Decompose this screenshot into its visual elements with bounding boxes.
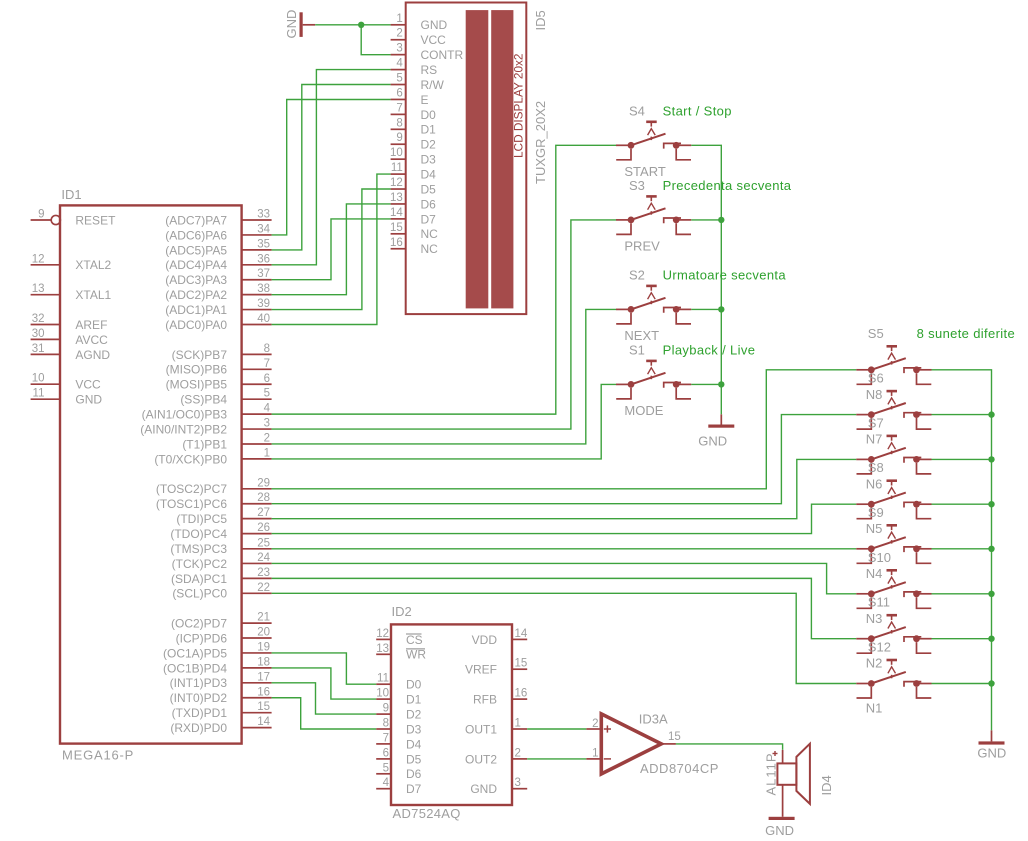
svg-text:23: 23 — [257, 567, 270, 579]
svg-text:1: 1 — [396, 13, 402, 25]
svg-text:(ADC1)PA1: (ADC1)PA1 — [165, 303, 227, 317]
svg-text:N2: N2 — [866, 656, 883, 671]
op-amp minus input marker — [604, 758, 611, 760]
speaker plus polarity mark — [773, 753, 778, 755]
svg-text:40: 40 — [257, 313, 270, 325]
wire DAC OUT1 to op-amp noninverting — [527, 728, 586, 730]
junction column row 6 — [988, 591, 994, 597]
svg-text:12: 12 — [376, 628, 389, 640]
svg-text:6: 6 — [383, 747, 389, 759]
svg-text:AVCC: AVCC — [75, 333, 108, 347]
svg-text:14: 14 — [257, 716, 270, 728]
svg-text:(TDO)PC4: (TDO)PC4 — [170, 527, 227, 541]
wire PC3 to switch S9 — [272, 548, 857, 550]
wire GND net to LCD pin1 — [315, 24, 390, 26]
wire switch row 7 to column — [932, 638, 992, 640]
speaker ID4 body box — [777, 763, 796, 784]
svg-text:(AIN1/OC0)PB3: (AIN1/OC0)PB3 — [142, 408, 228, 422]
wire S3 right to column — [691, 219, 721, 221]
svg-text:R/W: R/W — [421, 78, 445, 92]
svg-text:S8: S8 — [868, 460, 884, 475]
svg-text:(ADC5)PA5: (ADC5)PA5 — [165, 243, 227, 257]
svg-text:(SCK)PB7: (SCK)PB7 — [172, 348, 228, 362]
pin 16 (INT0)PD2 of ID1 — [242, 697, 272, 699]
wire PC2 to switch S10 — [272, 563, 857, 593]
svg-text:(MISO)PB6: (MISO)PB6 — [166, 363, 228, 377]
wire PB3 to switch S4 — [272, 145, 616, 414]
svg-text:15: 15 — [390, 222, 403, 234]
pin 14 D7 of ID5 — [391, 218, 406, 220]
svg-text:(MOSI)PB5: (MOSI)PB5 — [166, 378, 228, 392]
svg-text:RFB: RFB — [473, 693, 497, 707]
IC ID2 AD7524 body — [391, 624, 512, 805]
pin 1 OUT1 of ID2 — [512, 728, 527, 730]
svg-text:TUXGR_20X2: TUXGR_20X2 — [533, 101, 548, 184]
pin 3 (AIN0/INT2)PB2 of ID1 — [242, 428, 272, 430]
pin 11 GND of ID1 — [31, 398, 60, 400]
switch S11 symbol — [856, 615, 931, 653]
junction S3 column — [718, 217, 724, 223]
svg-text:D6: D6 — [421, 197, 437, 211]
wire PD4 to DAC D1 — [272, 668, 377, 699]
svg-text:(T1)PB1: (T1)PB1 — [182, 437, 227, 451]
svg-text:(ADC7)PA7: (ADC7)PA7 — [165, 213, 227, 227]
svg-text:Precedenta secventa: Precedenta secventa — [663, 178, 792, 193]
svg-text:AREF: AREF — [75, 318, 107, 332]
pin 6 E of ID5 — [391, 98, 406, 100]
svg-text:8 sunete diferite: 8 sunete diferite — [917, 326, 1015, 341]
svg-text:N1: N1 — [866, 701, 883, 716]
pin 12 CS of ID2 — [376, 638, 391, 640]
pin 10 VCC of ID1 — [31, 383, 60, 385]
wire D7 PA3 to LCD pin14 — [272, 219, 391, 280]
svg-text:(ADC2)PA2: (ADC2)PA2 — [165, 288, 227, 302]
svg-text:(ADC0)PA0: (ADC0)PA0 — [165, 318, 227, 332]
svg-text:D1: D1 — [406, 693, 422, 707]
pin 1 op-amp inverting input — [586, 758, 601, 760]
svg-text:30: 30 — [32, 328, 45, 340]
svg-text:NC: NC — [421, 242, 439, 256]
svg-text:MEGA16-P: MEGA16-P — [62, 747, 134, 762]
svg-text:S11: S11 — [868, 595, 890, 610]
svg-text:1: 1 — [264, 447, 270, 459]
svg-text:S6: S6 — [868, 371, 884, 386]
pin 26 (TDO)PC4 of ID1 — [242, 533, 272, 535]
svg-text:XTAL2: XTAL2 — [75, 258, 111, 272]
wire PD3 to DAC D2 — [272, 683, 377, 714]
svg-text:7: 7 — [383, 732, 389, 744]
svg-text:START: START — [624, 164, 665, 179]
svg-text:21: 21 — [257, 612, 270, 624]
svg-text:CS: CS — [406, 633, 423, 647]
svg-text:7: 7 — [396, 102, 402, 114]
svg-text:18: 18 — [257, 656, 270, 668]
svg-text:N3: N3 — [866, 611, 883, 626]
svg-text:D0: D0 — [421, 108, 437, 122]
svg-text:31: 31 — [32, 343, 45, 355]
svg-text:(ADC3)PA3: (ADC3)PA3 — [165, 273, 227, 287]
svg-text:OUT2: OUT2 — [465, 752, 497, 766]
svg-text:28: 28 — [257, 492, 270, 504]
switch S2 symbol — [616, 286, 691, 324]
svg-text:13: 13 — [376, 643, 389, 655]
pin 37 (ADC3)PA3 of ID1 — [242, 279, 272, 281]
speaker ID4 horn — [796, 744, 810, 804]
junction column row 3 — [988, 456, 994, 462]
pin 35 (ADC5)PA5 of ID1 — [242, 249, 272, 251]
svg-text:GND: GND — [470, 782, 497, 796]
svg-text:Playback / Live: Playback / Live — [663, 342, 756, 357]
svg-text:(SDA)PC1: (SDA)PC1 — [171, 572, 227, 586]
pin 7 (MISO)PB6 of ID1 — [242, 368, 272, 370]
svg-text:8: 8 — [396, 117, 402, 129]
pin 16 NC of ID5 — [391, 248, 406, 250]
pin 2 VCC of ID5 — [391, 39, 406, 41]
svg-text:(AIN0/INT2)PB2: (AIN0/INT2)PB2 — [140, 422, 227, 436]
svg-text:GND: GND — [765, 823, 794, 838]
pin 15 VREF of ID2 — [512, 668, 527, 670]
svg-text:12: 12 — [32, 253, 45, 265]
svg-text:D4: D4 — [406, 737, 422, 751]
pin 9 D2 of ID5 — [391, 143, 406, 145]
pin 4 D7 of ID2 — [376, 788, 391, 790]
svg-text:3: 3 — [396, 43, 402, 55]
svg-text:OUT1: OUT1 — [465, 722, 497, 736]
svg-text:24: 24 — [257, 552, 270, 564]
pin 20 (ICP)PD6 of ID1 — [242, 637, 272, 639]
svg-text:S1: S1 — [629, 343, 645, 358]
pin 10 D1 of ID2 — [376, 698, 391, 700]
pin 12 XTAL2 of ID1 — [31, 264, 60, 266]
svg-text:11: 11 — [33, 388, 45, 400]
svg-text:39: 39 — [257, 298, 270, 310]
svg-text:WR: WR — [406, 648, 426, 662]
pin 32 AREF of ID1 — [31, 324, 60, 326]
svg-text:N6: N6 — [866, 476, 883, 491]
svg-text:S9: S9 — [868, 505, 884, 520]
svg-text:(OC2)PD7: (OC2)PD7 — [171, 617, 227, 631]
svg-text:2: 2 — [515, 747, 521, 759]
wire op-amp output to speaker — [676, 744, 783, 750]
pin 31 AGND of ID1 — [31, 353, 60, 355]
pin 33 (ADC7)PA7 of ID1 — [242, 219, 272, 221]
pin 29 (TOSC2)PC7 of ID1 — [242, 488, 272, 490]
svg-text:RESET: RESET — [75, 213, 116, 227]
pin 24 (TCK)PC2 of ID1 — [242, 562, 272, 564]
svg-text:D7: D7 — [406, 782, 422, 796]
wire GND net to LCD pin3 CONTR — [361, 25, 390, 55]
junction S1 column — [718, 381, 724, 387]
pin 12 D5 of ID5 — [391, 188, 406, 190]
svg-text:5: 5 — [383, 762, 389, 774]
LCD glass bar 2 — [491, 10, 513, 308]
svg-text:15: 15 — [668, 731, 681, 743]
svg-text:1: 1 — [592, 748, 598, 760]
svg-text:(OC1B)PD4: (OC1B)PD4 — [163, 661, 227, 675]
pin 36 (ADC4)PA4 of ID1 — [242, 264, 272, 266]
svg-text:38: 38 — [257, 283, 270, 295]
svg-text:ID5: ID5 — [533, 10, 548, 30]
svg-text:34: 34 — [257, 223, 270, 235]
svg-text:GND: GND — [977, 746, 1006, 761]
pin 14 (RXD)PD0 of ID1 — [242, 727, 272, 729]
svg-text:2: 2 — [592, 718, 598, 730]
wire S2 right to column — [691, 308, 721, 310]
svg-text:Start / Stop: Start / Stop — [663, 103, 732, 118]
IC ID1 MEGA16-P body — [60, 205, 242, 743]
svg-text:VREF: VREF — [465, 663, 497, 677]
svg-text:(INT0)PD2: (INT0)PD2 — [170, 691, 228, 705]
IC ID5 LCD display body — [406, 3, 527, 315]
switch S3 symbol — [616, 196, 691, 234]
pin 13 XTAL1 of ID1 — [31, 294, 60, 296]
svg-text:N7: N7 — [866, 432, 883, 447]
svg-text:8: 8 — [383, 718, 389, 730]
svg-text:D2: D2 — [406, 708, 422, 722]
wire PC7 to switch S5 — [272, 370, 857, 489]
pin 28 (TOSC1)PC6 of ID1 — [242, 503, 272, 505]
svg-text:ID1: ID1 — [61, 187, 81, 202]
wire switch row 5 to column — [932, 548, 992, 550]
pin 13 D6 of ID5 — [391, 203, 406, 205]
svg-text:S7: S7 — [868, 415, 884, 430]
svg-text:RS: RS — [421, 63, 438, 77]
switch S7 symbol — [856, 436, 931, 474]
svg-text:11: 11 — [391, 162, 403, 174]
pin 6 (MOSI)PB5 of ID1 — [242, 383, 272, 385]
wire switch row 6 to column — [932, 593, 992, 595]
pin 2 (T1)PB1 of ID1 — [242, 443, 272, 445]
ground symbol below mode buttons — [720, 414, 722, 424]
speaker top pin — [782, 750, 784, 764]
wire PB2 to switch S3 — [272, 220, 616, 429]
pin 5 R/W of ID5 — [391, 84, 406, 86]
svg-text:2: 2 — [396, 28, 402, 40]
wire PC5 to switch S7 — [272, 459, 857, 518]
svg-text:36: 36 — [257, 253, 270, 265]
pin 3 CONTR of ID5 — [391, 54, 406, 56]
junction column row 5 — [988, 546, 994, 552]
svg-text:(RXD)PD0: (RXD)PD0 — [170, 721, 227, 735]
svg-text:4: 4 — [264, 403, 271, 415]
pin 19 (OC1A)PD5 of ID1 — [242, 652, 272, 654]
switch S12 symbol — [856, 660, 931, 698]
wire S1 right to column — [691, 383, 721, 385]
pin 14 VDD of ID2 — [512, 638, 527, 640]
pin 27 (TDI)PC5 of ID1 — [242, 518, 272, 520]
junction column row 7 — [988, 636, 994, 642]
wire PC0 to switch S12 — [272, 593, 857, 683]
svg-text:E: E — [421, 93, 429, 107]
junction column row 4 — [988, 501, 994, 507]
svg-text:17: 17 — [257, 671, 270, 683]
svg-text:(ADC6)PA6: (ADC6)PA6 — [165, 228, 227, 242]
svg-text:22: 22 — [257, 582, 270, 594]
svg-text:D5: D5 — [406, 752, 422, 766]
svg-text:25: 25 — [257, 537, 270, 549]
svg-text:(INT1)PD3: (INT1)PD3 — [170, 676, 228, 690]
svg-text:AD7524AQ: AD7524AQ — [393, 806, 461, 821]
svg-text:S5: S5 — [868, 326, 884, 341]
junction GND net — [358, 22, 364, 28]
wire PB1 to switch S2 — [272, 309, 616, 444]
svg-text:CONTR: CONTR — [421, 48, 464, 62]
pin 9 D2 of ID2 — [376, 713, 391, 715]
svg-text:MODE: MODE — [624, 403, 663, 418]
pin 40 (ADC0)PA0 of ID1 — [242, 324, 272, 326]
pin 15 op-amp output — [661, 743, 676, 745]
svg-text:D7: D7 — [421, 212, 437, 226]
pin 21 (OC2)PD7 of ID1 — [242, 622, 272, 624]
svg-text:11: 11 — [377, 673, 389, 685]
svg-text:N4: N4 — [866, 566, 883, 581]
ground symbol below speaker — [769, 817, 795, 820]
svg-text:(SS)PB4: (SS)PB4 — [180, 393, 227, 407]
switch S8 symbol — [856, 481, 931, 519]
junction S2 column — [718, 306, 724, 312]
pin 38 (ADC2)PA2 of ID1 — [242, 294, 272, 296]
svg-text:D6: D6 — [406, 767, 422, 781]
svg-text:10: 10 — [376, 688, 389, 700]
wire E PA6 to LCD pin6 — [272, 100, 391, 235]
switch S9 symbol — [856, 525, 931, 563]
svg-text:14: 14 — [390, 207, 403, 219]
switch S1 symbol — [616, 361, 691, 399]
svg-text:4: 4 — [383, 777, 390, 789]
svg-text:14: 14 — [515, 628, 528, 640]
pin 1 GND of ID5 — [391, 24, 406, 26]
svg-text:9: 9 — [38, 209, 44, 221]
pin 3 GND of ID2 — [512, 788, 527, 790]
pin 6 D5 of ID2 — [376, 758, 391, 760]
switch S6 symbol — [856, 391, 931, 429]
svg-text:13: 13 — [32, 283, 45, 295]
pin 5 (SS)PB4 of ID1 — [242, 398, 272, 400]
svg-text:15: 15 — [257, 701, 270, 713]
pin 11 D0 of ID2 — [376, 683, 391, 685]
switch S10 symbol — [856, 570, 931, 608]
svg-text:ID3A: ID3A — [639, 712, 668, 727]
junction column row 2 — [988, 411, 994, 417]
svg-text:ID4: ID4 — [819, 775, 834, 795]
pin 15 (TXD)PD1 of ID1 — [242, 712, 272, 714]
svg-text:16: 16 — [390, 237, 403, 249]
ground symbol at LCD pin1 — [300, 12, 303, 37]
wire PC1 to switch S11 — [272, 578, 857, 638]
wire PD2 to DAC D3 — [272, 698, 377, 729]
svg-text:ID2: ID2 — [392, 604, 412, 619]
svg-text:(TMS)PC3: (TMS)PC3 — [170, 542, 227, 556]
svg-text:XTAL1: XTAL1 — [75, 288, 111, 302]
wire switch row 8 to column — [932, 683, 992, 685]
pin 25 (TMS)PC3 of ID1 — [242, 548, 272, 550]
svg-text:D4: D4 — [421, 168, 437, 182]
svg-text:(ICP)PD6: (ICP)PD6 — [176, 631, 228, 645]
wire switch outputs to ground column — [691, 145, 721, 414]
wire RS PA4 to LCD pin4 — [272, 70, 391, 265]
svg-text:NEXT: NEXT — [624, 328, 659, 343]
pin 23 (SDA)PC1 of ID1 — [242, 577, 272, 579]
wire PB0 to switch S1 — [272, 384, 616, 459]
wire PD5 to DAC D0 — [272, 653, 377, 684]
op-amp plus input marker — [604, 728, 611, 730]
pin 2 OUT2 of ID2 — [512, 758, 527, 760]
pin 22 (SCL)PC0 of ID1 — [242, 592, 272, 594]
svg-text:4: 4 — [396, 58, 403, 70]
svg-text:6: 6 — [264, 373, 270, 385]
svg-text:ADD8704CP: ADD8704CP — [640, 761, 719, 776]
svg-text:9: 9 — [396, 132, 402, 144]
pin 8 (SCK)PB7 of ID1 — [242, 353, 272, 355]
svg-text:NC: NC — [421, 227, 439, 241]
svg-text:6: 6 — [396, 87, 402, 99]
svg-text:1: 1 — [515, 718, 521, 730]
pin 16 RFB of ID2 — [512, 698, 527, 700]
pin 30 AVCC of ID1 — [31, 338, 60, 340]
pin 39 (ADC1)PA1 of ID1 — [242, 309, 272, 311]
LCD glass bar 1 — [466, 10, 489, 308]
svg-text:VCC: VCC — [421, 33, 447, 47]
svg-text:5: 5 — [264, 388, 270, 400]
switch S4 symbol — [616, 122, 691, 160]
wire D4 PA0 to LCD pin11 — [272, 174, 391, 324]
svg-text:VDD: VDD — [472, 633, 498, 647]
svg-text:N8: N8 — [866, 387, 883, 402]
svg-text:AGND: AGND — [75, 348, 110, 362]
svg-text:16: 16 — [257, 686, 270, 698]
svg-text:29: 29 — [257, 477, 270, 489]
wire D6 PA2 to LCD pin13 — [272, 204, 391, 295]
svg-text:GND: GND — [421, 18, 448, 32]
svg-text:20: 20 — [257, 627, 270, 639]
svg-text:33: 33 — [257, 209, 270, 221]
svg-text:D3: D3 — [421, 153, 437, 167]
svg-text:N5: N5 — [866, 521, 883, 536]
svg-text:S12: S12 — [868, 640, 891, 655]
pin 5 D6 of ID2 — [376, 773, 391, 775]
svg-text:D3: D3 — [406, 722, 422, 736]
svg-text:(TCK)PC2: (TCK)PC2 — [172, 557, 228, 571]
pin 10 D3 of ID5 — [391, 158, 406, 160]
svg-text:S10: S10 — [868, 550, 891, 565]
pin 15 NC of ID5 — [391, 233, 406, 235]
svg-text:16: 16 — [515, 688, 528, 700]
wire R/W PA5 to LCD pin5 — [272, 85, 391, 250]
wire switch row 3 to column — [932, 458, 992, 460]
svg-text:AL11P: AL11P — [763, 752, 778, 795]
svg-text:(TXD)PD1: (TXD)PD1 — [172, 706, 228, 720]
svg-text:10: 10 — [32, 373, 45, 385]
svg-text:D1: D1 — [421, 123, 437, 137]
wire DAC OUT2 to op-amp inverting — [527, 758, 586, 760]
ground symbol right button column — [991, 730, 993, 741]
pin 2 op-amp noninverting input — [586, 728, 601, 730]
svg-text:7: 7 — [264, 358, 270, 370]
switch S5 symbol — [856, 346, 931, 384]
svg-text:GND: GND — [75, 393, 102, 407]
pin 7 D0 of ID5 — [391, 113, 406, 115]
svg-text:S4: S4 — [629, 103, 645, 118]
pin 8 D1 of ID5 — [391, 128, 406, 130]
svg-text:5: 5 — [396, 73, 402, 85]
svg-text:35: 35 — [257, 238, 270, 250]
svg-text:S2: S2 — [629, 268, 645, 283]
svg-text:(TOSC2)PC7: (TOSC2)PC7 — [156, 482, 227, 496]
pin 4 (AIN1/OC0)PB3 of ID1 — [242, 413, 272, 415]
svg-text:12: 12 — [390, 177, 403, 189]
svg-text:15: 15 — [515, 658, 528, 670]
pin 18 (OC1B)PD4 of ID1 — [242, 667, 272, 669]
